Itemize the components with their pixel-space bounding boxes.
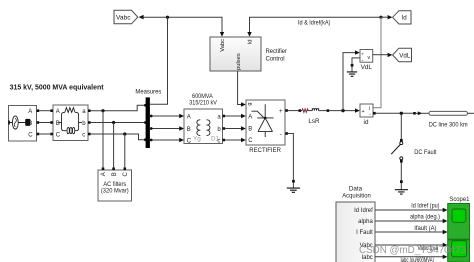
svg-text:-: -	[280, 131, 282, 138]
svg-text:C: C	[28, 133, 33, 139]
rectifier output stubs	[285, 109, 288, 112]
svg-text:C: C	[187, 138, 192, 144]
svg-text:D1: D1	[211, 135, 220, 142]
svg-text:B: B	[112, 172, 118, 176]
bus bar connector dots	[144, 104, 147, 107]
wire source C to RL C	[39, 133, 50, 135]
RL equivalent impedance block	[53, 105, 88, 141]
wire DA Vabc to scope	[375, 244, 443, 246]
wire id out to DC line and fault tap	[376, 112, 414, 114]
wire R to L	[308, 110, 313, 112]
svg-text:Rectifier: Rectifier	[266, 48, 287, 55]
svg-text:A: A	[28, 109, 32, 115]
wire rectifier plus to LsR	[288, 110, 302, 112]
wire phase c RL to bus bar	[91, 134, 146, 140]
svg-text:Id: Id	[402, 15, 408, 22]
wire DC line to edge	[468, 112, 474, 114]
svg-text:B: B	[248, 127, 252, 133]
svg-text:DC line 300 km: DC line 300 km	[429, 121, 468, 128]
svg-text:i: i	[369, 106, 370, 112]
svg-text:alpha (deg.): alpha (deg.)	[410, 214, 440, 221]
svg-text:Iabc (pu/600MVA): Iabc (pu/600MVA)	[401, 257, 435, 262]
wire into DC line	[416, 112, 429, 114]
svg-text:Id: Id	[248, 40, 254, 45]
svg-text:C: C	[56, 133, 61, 139]
svg-text:CSDN @mD_YS470473: CSDN @mD_YS470473	[359, 245, 467, 256]
DC line input port	[413, 112, 416, 115]
wire LsR to id block	[329, 110, 356, 112]
svg-text:315 kV, 5000 MVA equivalent: 315 kV, 5000 MVA equivalent	[10, 83, 105, 92]
wire Id junction to Id tag	[381, 16, 388, 18]
svg-text:alpha: alpha	[358, 219, 373, 225]
Data Acquisition block	[336, 185, 375, 262]
svg-text:id: id	[364, 119, 369, 126]
svg-text:Scope1: Scope1	[449, 196, 469, 203]
transformer right port stubs	[223, 115, 226, 118]
svg-text:Yg: Yg	[193, 135, 201, 142]
Vabc goto tag	[114, 10, 138, 23]
wire Vabc net to control	[143, 17, 222, 33]
svg-text:(320 Mvar): (320 Mvar)	[101, 188, 129, 195]
wire source A to RL A	[39, 110, 50, 112]
svg-text:C: C	[248, 138, 253, 144]
wire transformer a to rectifier A	[225, 115, 242, 117]
RECTIFIER block	[246, 100, 285, 145]
node phase a tap	[101, 109, 104, 112]
svg-text:Id Idref (pu): Id Idref (pu)	[411, 203, 439, 210]
AC filters block	[98, 168, 132, 202]
svg-text:A: A	[101, 172, 107, 176]
ground G1 (VdL)	[347, 64, 357, 76]
wire Vabc junction down to bus bar	[150, 17, 168, 104]
svg-text:LsR: LsR	[308, 118, 320, 125]
wire pulses to rectifier g	[238, 71, 242, 105]
node DC fault junction	[400, 112, 403, 115]
svg-text:Vabc: Vabc	[220, 39, 226, 52]
wire DA alpha to scope	[375, 220, 443, 222]
transformer winding D1	[207, 120, 210, 136]
wire junction down to DC fault breaker	[400, 113, 402, 139]
arrow into Vabc tag	[139, 15, 144, 20]
svg-text:+: +	[361, 52, 364, 57]
svg-text:g: g	[247, 103, 253, 106]
node VdL tap	[341, 109, 344, 112]
svg-text:VdL: VdL	[399, 52, 411, 59]
svg-text:Id & Idref(kA): Id & Idref(kA)	[298, 20, 330, 27]
thyristor icon	[252, 104, 274, 137]
wire tap up to VdL plus	[343, 53, 356, 111]
VdL goto tag	[393, 48, 412, 62]
inductor LsR (L part)	[312, 109, 318, 111]
svg-text:A: A	[56, 109, 60, 115]
wire VdL v out to tag	[373, 54, 388, 56]
RL icon: inductor loops	[67, 128, 69, 134]
wire DA I Fault to scope	[375, 231, 443, 233]
wire VdL minus to ground	[352, 58, 360, 64]
svg-text:Data: Data	[349, 185, 363, 192]
svg-text:A: A	[187, 115, 191, 121]
wire bus bar to transformer B	[150, 128, 181, 130]
svg-text:c: c	[82, 133, 85, 139]
RL port stubs	[50, 109, 53, 112]
svg-text:Control: Control	[266, 56, 285, 63]
svg-text:RECTIFIER: RECTIFIER	[249, 147, 281, 154]
source block (three-phase source)	[9, 106, 37, 142]
svg-text:Measures: Measures	[135, 89, 161, 96]
wire bus bar to transformer A	[150, 115, 181, 117]
DC line block (pill)	[429, 111, 468, 115]
wire source B to RL B	[39, 122, 50, 124]
node phase c tap	[123, 132, 126, 135]
svg-text:B: B	[187, 127, 191, 133]
wire breaker to ground	[400, 163, 402, 181]
svg-text:+: +	[362, 109, 365, 115]
svg-text:Id Idref: Id Idref	[354, 208, 373, 214]
resistor LsR (R part, dark red)	[302, 109, 308, 113]
ground G2 (DC fault)	[395, 180, 408, 194]
svg-text:Vabc: Vabc	[116, 15, 131, 22]
wire bus bar to transformer C	[150, 139, 181, 141]
wire transformer c to rectifier C	[225, 139, 242, 141]
wire transformer b to rectifier B	[225, 128, 242, 130]
wire i measurement up (gray)	[373, 17, 381, 108]
node Id junction	[379, 16, 382, 19]
RL icon: resistor zigzag	[65, 108, 75, 113]
source port stubs	[37, 109, 40, 112]
wire DA Iabc to scope	[375, 256, 443, 258]
wire L to port	[318, 110, 329, 112]
wire drop a to AC filters	[102, 111, 104, 168]
svg-text:-: -	[362, 57, 364, 63]
svg-text:VdL: VdL	[361, 64, 373, 71]
id current measurement block	[360, 104, 373, 118]
DC Fault breaker	[391, 139, 403, 163]
wire phase b RL to bus bar	[91, 122, 146, 124]
wire Id net: corner to control Id input	[250, 17, 382, 33]
node phase b tap	[112, 121, 115, 124]
id output stub	[373, 112, 376, 115]
svg-text:pulses: pulses	[236, 53, 242, 70]
svg-text:+: +	[279, 109, 283, 115]
svg-text:315/210 kV: 315/210 kV	[189, 100, 217, 106]
svg-text:C: C	[123, 172, 129, 177]
svg-text:A: A	[248, 115, 252, 121]
wire rectifier minus to ground	[288, 134, 294, 180]
Rectifier Control block	[210, 37, 261, 71]
ground G3 (rectifier minus)	[287, 180, 300, 193]
svg-text:Acquisition: Acquisition	[342, 193, 371, 200]
RL icon: outline rails	[58, 112, 82, 130]
Measures bus bar block	[146, 97, 150, 148]
wire drop c to AC filters	[124, 134, 126, 168]
Scope1 block	[448, 204, 470, 262]
node Vabc junction	[166, 16, 169, 19]
svg-text:DC Fault: DC Fault	[414, 149, 436, 156]
Id goto tag	[393, 11, 411, 24]
VdL voltage measurement block	[360, 50, 373, 64]
wire DA Id Idref to scope	[375, 209, 443, 211]
transformer block	[184, 109, 223, 144]
transformer winding Yg	[197, 120, 200, 136]
wire phase a RL to bus bar	[91, 105, 146, 110]
wire drop b to AC filters	[113, 123, 115, 168]
svg-text:Iabc: Iabc	[361, 255, 372, 261]
svg-text:Ifault (A): Ifault (A)	[414, 225, 436, 232]
svg-text:I Fault: I Fault	[356, 230, 373, 236]
svg-text:600MVA: 600MVA	[192, 94, 213, 100]
